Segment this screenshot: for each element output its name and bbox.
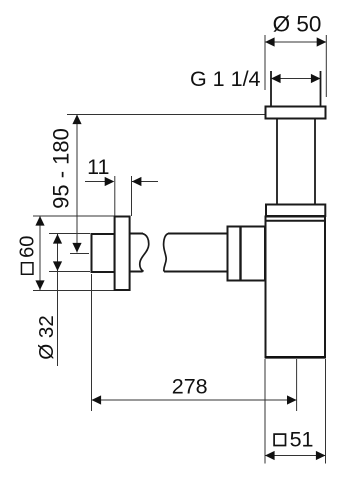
pipe segment 2 (with break) [164,234,228,272]
thread pipe right edge [320,71,322,106]
pipe centerline mark [70,253,89,255]
dimension □60 extension line top [33,215,115,217]
svg-text:95 - 180: 95 - 180 [49,128,74,209]
label 278 [172,374,208,398]
dimension 278 extension line left [91,274,93,411]
dimension □60 extension line bottom [33,290,115,292]
body cup [266,217,326,358]
dimension □60 line with arrows [35,216,44,290]
label 95 - 180 (rotated) [49,128,74,209]
dimension 11 left arrow [85,177,114,186]
thread pipe left edge [270,71,272,106]
label G 1 1/4 [190,67,261,91]
height reference line [67,114,265,116]
nut divider line [239,227,241,281]
label □ 60 (rotated square + text) [16,236,38,275]
svg-text:11: 11 [87,155,109,179]
svg-text:Ø 32: Ø 32 [35,315,58,359]
pipe stub behind wall [92,234,115,272]
dimension Ø32 line with arrows [53,234,62,366]
label 11 [87,155,109,179]
lower flange [266,205,325,217]
dimension Ø50 line with arrows [265,37,326,46]
label Ø 50 [273,12,322,37]
svg-text:60: 60 [16,236,38,258]
dimension G1¼ line with arrows [271,74,321,83]
dimension 11 extension line left [114,176,116,216]
svg-text:278: 278 [172,374,208,398]
svg-text:Ø 50: Ø 50 [273,12,322,37]
dimension 11 right arrow [132,177,158,186]
dimension 278 line with arrows [92,395,297,404]
svg-text:G 1 1/4: G 1 1/4 [190,67,261,91]
label Ø 32 (rotated) [35,315,58,359]
dimension Ø50 extension line left [264,35,266,90]
riser pipe right edge [314,119,316,205]
riser pipe left edge [276,119,278,205]
wall plate [115,217,130,291]
dimension 11 extension line right [131,176,133,216]
dimension 95-180 line with arrows [72,115,81,253]
dimension 278 extension line right (body axis) [296,359,298,411]
dimension □51 extension line right [325,359,327,464]
dimension □51 line with arrows [265,451,326,460]
dimension □51 extension line left [264,359,266,464]
dimension Ø32 extension line top [49,233,90,235]
top flange [266,107,326,119]
svg-text:51: 51 [290,427,314,451]
pipe segment 1 (with break) [130,234,149,272]
label □ 51 (square + text) [274,427,313,451]
compression nut [228,227,266,281]
body cup bottom edge [265,356,326,359]
dimension Ø32 extension line bottom [49,271,90,273]
dimension Ø50 extension line right [325,35,327,97]
body cup rim line [265,220,326,222]
